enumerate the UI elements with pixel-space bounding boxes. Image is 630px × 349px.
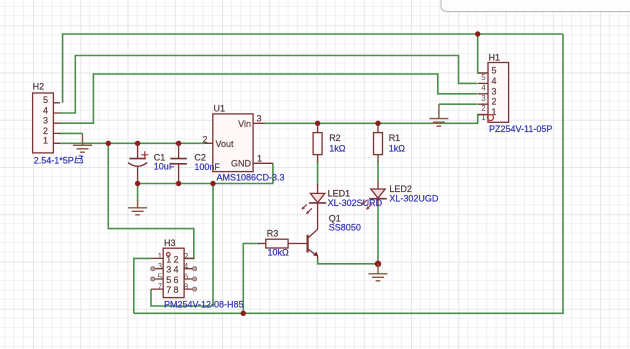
svg-text:R1: R1 (389, 133, 401, 143)
svg-text:H2: H2 (33, 82, 45, 92)
svg-text:XL-302UGD: XL-302UGD (389, 194, 439, 204)
svg-text:8: 8 (173, 285, 178, 295)
wire R2 to LED1 (317, 161, 319, 185)
svg-text:8: 8 (184, 283, 189, 292)
label H3 value (164, 300, 244, 310)
svg-text:1: 1 (481, 113, 486, 122)
svg-text:C2: C2 (194, 152, 206, 162)
svg-text:3: 3 (43, 116, 48, 126)
svg-text:6: 6 (184, 273, 189, 282)
ground symbol at LED2 Q1 emitter (369, 264, 388, 281)
wire net H2.4 to H1.4 (60, 56, 478, 114)
svg-text:4: 4 (43, 105, 48, 115)
svg-text:1: 1 (43, 136, 48, 146)
svg-text:2: 2 (184, 252, 189, 261)
svg-text:H3: H3 (164, 238, 176, 248)
resistor R2 (313, 123, 346, 162)
connector H1 (478, 53, 509, 123)
svg-text:4: 4 (481, 83, 486, 92)
svg-text:4: 4 (173, 265, 178, 275)
wire H1.2 to ground (439, 103, 478, 105)
svg-text:Vout: Vout (216, 139, 235, 149)
svg-text:Vin: Vin (238, 119, 251, 129)
ground symbol below C1 (128, 200, 147, 215)
wire GND rail stem to ground symbol (137, 184, 139, 202)
wire net H2.5 riser and top rail (63, 34, 563, 103)
svg-text:2.54-1*5P: 2.54-1*5P (34, 156, 74, 166)
label U1 value (217, 173, 285, 183)
svg-text:3: 3 (492, 86, 497, 96)
svg-text:10kΩ: 10kΩ (268, 247, 290, 257)
label H2 value 2.54-1*5P(mu) (34, 156, 84, 166)
junction node GND branch (210, 181, 215, 186)
wire riser Vout to H3.2 (108, 143, 194, 258)
wire branch to H1 pin5 (478, 34, 488, 73)
svg-text:PM254V-12-08-H85: PM254V-12-08-H85 (164, 300, 244, 310)
svg-text:2: 2 (173, 254, 178, 264)
junction node R3 riser bottom (241, 311, 246, 316)
svg-text:4: 4 (184, 262, 189, 271)
wire Vin rail U1.3 to H1.1 with R2 R1 taps (264, 115, 488, 124)
wire net H2.3 to H1.3 (60, 74, 478, 123)
regulator U1 (202, 104, 272, 172)
junction node R1 top (375, 121, 380, 126)
junction node R2 top (315, 121, 320, 126)
svg-text:5: 5 (43, 95, 48, 105)
svg-text:3: 3 (158, 262, 163, 271)
wire net H2.2 to ground (59, 132, 83, 134)
svg-text:100nF: 100nF (194, 162, 220, 172)
svg-text:1kΩ: 1kΩ (389, 143, 406, 153)
svg-text:1: 1 (158, 252, 163, 261)
svg-text:2: 2 (43, 126, 48, 136)
svg-text:GND: GND (231, 159, 252, 169)
wire LED2 cathode down to ground junction (377, 206, 379, 264)
resistor R1 (374, 123, 406, 162)
svg-text:5: 5 (492, 66, 497, 76)
svg-text:LED2: LED2 (389, 184, 412, 194)
junction node C2 bottom (176, 181, 181, 186)
junction node C2 top (176, 141, 181, 146)
connector H3 (151, 238, 197, 298)
junction node Vout riser (106, 141, 111, 146)
wire right edge and bottom rail (134, 34, 563, 313)
svg-text:H1: H1 (489, 53, 501, 63)
resistor R3 (258, 228, 289, 257)
wire Q1 emitter rail to ground junction (318, 258, 378, 264)
wire R1 to LED2 (377, 161, 379, 181)
junction node C1 top (135, 141, 140, 146)
LED LED2 (362, 181, 439, 210)
ground symbol at H2 pin2 (73, 133, 92, 152)
svg-text:2: 2 (481, 104, 486, 113)
svg-text:3: 3 (256, 113, 261, 123)
svg-text:6: 6 (173, 275, 178, 285)
wire GND branch to H3.7 (151, 184, 213, 307)
capacitor C2 (170, 143, 220, 183)
svg-text:1kΩ: 1kΩ (329, 143, 346, 153)
junction node LED2 ground (375, 261, 381, 267)
svg-text:U1: U1 (214, 104, 226, 114)
svg-text:LED1: LED1 (328, 188, 351, 198)
svg-text:1: 1 (257, 153, 262, 163)
wire riser from R3 to bottom rail (243, 244, 259, 314)
junction node top rail H1.5 (475, 31, 480, 36)
svg-text:PZ254V-11-05P: PZ254V-11-05P (489, 124, 552, 134)
svg-text:7: 7 (166, 285, 171, 295)
junction node C1 bottom (135, 181, 140, 186)
wire Vout rail H2.1 to U1.2 (59, 142, 206, 144)
svg-text:2: 2 (202, 135, 207, 145)
svg-text:5: 5 (166, 275, 171, 285)
capacitor C1 (128, 143, 175, 183)
transistor Q1 (287, 213, 360, 258)
svg-text:1: 1 (166, 254, 171, 264)
svg-text:5: 5 (158, 273, 163, 282)
svg-text:4: 4 (492, 76, 497, 86)
svg-text:7: 7 (158, 283, 163, 292)
svg-text:5: 5 (481, 73, 486, 82)
toolbar fragment top right (441, 0, 630, 12)
wire riser to H3 pin1 (134, 258, 151, 313)
label H1 value (489, 124, 552, 134)
svg-text:R3: R3 (267, 228, 279, 238)
svg-text:2: 2 (492, 97, 497, 107)
svg-text:3: 3 (166, 265, 171, 275)
LED LED1 (302, 184, 383, 229)
svg-text:3: 3 (481, 94, 486, 103)
ground symbol at H1 pin2 (429, 104, 448, 126)
connector H2 (33, 82, 60, 153)
svg-text:SS8050: SS8050 (329, 223, 361, 233)
svg-text:AMS1086CD-3.3: AMS1086CD-3.3 (217, 173, 285, 183)
svg-text:R2: R2 (329, 133, 341, 143)
wire GND rail C1 C2 U1.1 (138, 163, 273, 183)
